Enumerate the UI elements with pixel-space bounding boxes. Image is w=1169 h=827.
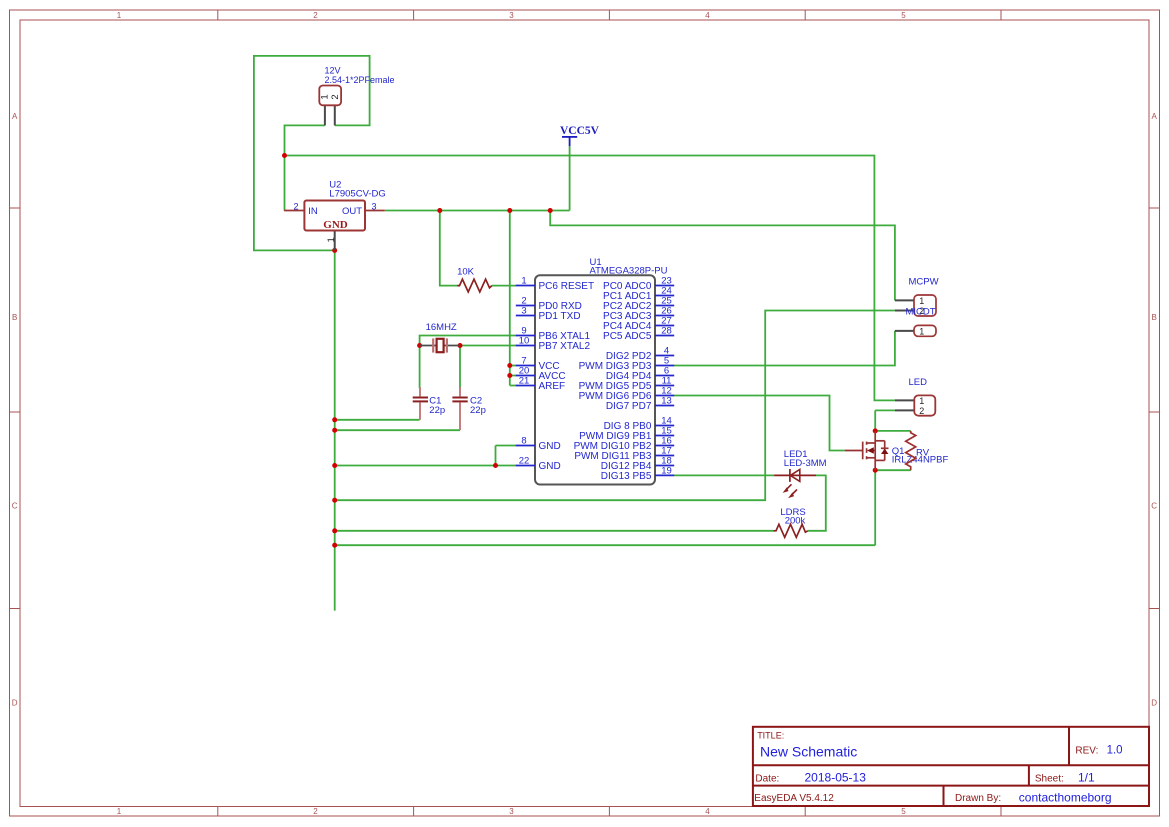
wire 12V pin2 loop to GND node [254,56,370,251]
svg-text:C: C [1151,502,1157,511]
U1 pin 13 DIG7 PD7 [606,396,674,412]
wire C1 bottom to GND bus [335,419,420,421]
U1 pin 9 PB6 XTAL1 [516,326,591,342]
wire pin8 GND drop [495,446,497,466]
wire VCC5V to VCC/AVCC/AREF [509,211,511,386]
U1 pin 10 PB7 XTAL2 [516,336,591,352]
wire Q1 drain to RV top [875,430,911,432]
junction node (419.6,345.5) [417,343,422,348]
svg-text:13: 13 [661,396,672,407]
U1 pin 21 AREF [516,376,565,392]
svg-text:4: 4 [705,11,710,20]
wire 12V pin1 to U2 IN [285,125,325,210]
junction node (509.8,365.5) [507,363,512,368]
svg-text:1: 1 [919,296,924,306]
resistor LDRS 200k [774,507,808,537]
capacitor C1 22p [413,387,445,420]
svg-text:Date:: Date: [755,773,779,784]
wire XTAL1 to U1 pin9 [420,336,516,346]
wire U2 OUT rail VCC5V [385,210,570,212]
svg-text:EasyEDA V5.4.12: EasyEDA V5.4.12 [754,793,834,804]
svg-text:22p: 22p [470,405,486,416]
svg-text:2: 2 [313,11,318,20]
LED1 LED-3MM [774,449,827,498]
svg-text:19: 19 [661,466,672,477]
junction node (334.7,430.2) [332,428,337,433]
Q1 labels [892,446,949,466]
U1 pin 6 DIG4 PD4 [606,366,674,382]
wire U1 pin19 PB5 to LED1 [674,474,774,476]
svg-text:10: 10 [519,336,530,347]
wire Q1 source to GND bus [335,544,876,546]
svg-text:VCC5V: VCC5V [560,125,600,137]
svg-text:10K: 10K [457,267,475,278]
junction node (439.8,210.5) [437,208,442,213]
junction node (334.7,419.8) [332,417,337,422]
U1 pin 11 PWM DIG5 PD5 [579,376,675,392]
wire LDRS to GND bus [335,530,774,532]
wire LED1 cathode to LDRS [808,475,826,530]
title block [753,727,1149,806]
wire stub to pin21 AREF [510,385,516,387]
svg-text:GND: GND [539,441,561,452]
svg-text:C: C [12,502,18,511]
wire U1 pin8 GND stub [496,445,517,447]
U1 pin 26 PC3 ADC3 [603,306,674,322]
svg-text:LED-3MM: LED-3MM [784,458,827,469]
svg-text:4: 4 [705,807,710,816]
svg-text:1: 1 [326,237,337,242]
svg-text:2: 2 [919,406,924,416]
U1 pin 3 PD1 TXD [516,306,581,322]
svg-text:IN: IN [308,206,318,217]
svg-text:2018-05-13: 2018-05-13 [805,771,867,785]
svg-text:A: A [12,112,18,121]
junction node (334.7,545.2) [332,543,337,548]
junction node (334.7,250.4) [332,248,337,253]
wire LED pin2 wire [875,409,895,411]
junction node (334.7,530.8) [332,528,337,533]
U1 pin 18 DIG12 PB4 [601,456,674,472]
svg-text:GND: GND [323,219,348,231]
junction node (495.5,465.5) [493,463,498,468]
wire C2 bottom to GND bus [335,429,460,431]
crystal 16MHZ [420,322,460,353]
wire Q1 source down [874,470,876,545]
connector MCPW [895,277,939,317]
U1 pin 14 DIG 8 PB0 [604,416,675,432]
junction node (334.7,500.2) [332,498,337,503]
regulator U2 L7905CV-DG [284,180,386,251]
junction node (509.8,210.5) [507,208,512,213]
svg-text:MCPW: MCPW [909,277,939,288]
svg-text:2.54-1*2PFemale: 2.54-1*2PFemale [325,75,395,85]
svg-text:2: 2 [330,94,341,99]
wire GND bus to U1 pin22 [335,465,516,467]
svg-text:PD1 TXD: PD1 TXD [539,311,581,322]
U1 pin 7 VCC [516,356,560,372]
title block text [754,731,1122,805]
resistor RV [906,431,930,470]
wire XTAL1 down to C1 [419,346,421,389]
U1 pin 23 PC0 ADC0 [603,276,674,292]
wire XTAL2 down to C2 [459,346,461,389]
U1 pin 19 DIG13 PB5 [601,466,674,482]
svg-text:DIG7 PD7: DIG7 PD7 [606,401,652,412]
IC U1 ATMEGA328P-PU [535,257,668,485]
wire LED pin2 to Q1 drain [874,410,876,431]
svg-text:D: D [12,699,18,708]
junction node (334.7,465.5) [332,463,337,468]
U1 pin 27 PC4 ADC4 [603,316,674,332]
svg-text:REV:: REV: [1075,746,1098,757]
svg-text:PB7 XTAL2: PB7 XTAL2 [539,341,591,352]
U1 pin 28 PC5 ADC5 [603,326,674,342]
svg-text:3: 3 [509,11,514,20]
svg-text:1: 1 [117,11,122,20]
wire U1 pin12 PD6 to Q1 gate [674,396,845,451]
svg-text:MICDT: MICDT [906,307,936,318]
svg-text:5: 5 [901,11,906,20]
wire MCPW pin2 to GND bus [335,311,895,501]
wire U1 pin5 PD3 to MICDT [674,331,895,366]
U1 pin 15 PWM DIG9 PB1 [579,426,674,442]
svg-text:Sheet:: Sheet: [1035,773,1064,784]
junction node (460,345.5) [458,343,463,348]
junction node (509.8,375.5) [507,373,512,378]
svg-text:OUT: OUT [342,206,362,217]
U1 pin 1 PC6 RESET [516,276,594,292]
junction node (550.2,210.5) [548,208,553,213]
wire stub to pin20 AVCC [510,375,516,377]
resistor 10K [457,267,492,293]
svg-text:1: 1 [117,807,122,816]
svg-text:1.0: 1.0 [1107,745,1123,757]
svg-text:3: 3 [372,202,377,212]
svg-text:1/1: 1/1 [1078,771,1095,785]
U1 pin 24 PC1 ADC1 [603,286,674,302]
svg-text:3: 3 [521,306,526,317]
U1 pin 20 AVCC [516,366,566,382]
svg-text:3: 3 [509,807,514,816]
capacitor C2 22p [452,387,485,430]
svg-text:Drawn By:: Drawn By: [955,793,1001,804]
connector LED [895,377,935,416]
svg-text:DIG13 PB5: DIG13 PB5 [601,471,652,482]
junction node (875.2,470.2) [873,468,878,473]
svg-text:TITLE:: TITLE: [757,731,784,741]
svg-text:8: 8 [521,436,526,447]
svg-text:New Schematic: New Schematic [760,744,857,760]
svg-text:D: D [1151,699,1157,708]
U1 pin 12 PWM DIG6 PD6 [579,386,675,402]
svg-text:L7905CV-DG: L7905CV-DG [329,188,386,199]
U1 pin 22 GND [516,456,561,472]
svg-text:AREF: AREF [539,381,566,392]
transistor Q1 IRLZ44NPBF [845,431,889,470]
U1 pin 8 GND [516,436,561,452]
wire 10K to U1 pin1 [492,285,516,287]
U1 pin 16 PWM DIG10 PB2 [574,436,675,452]
svg-text:1: 1 [919,326,924,336]
svg-text:1: 1 [521,276,526,287]
wire 12V rail to LED connector pin1 [285,156,895,401]
junction node (875.2,430.9) [873,428,878,433]
wire VCC5V to MCPW pin1 [550,211,895,301]
svg-text:1: 1 [919,396,924,406]
U1 pin 17 PWM DIG11 PB3 [574,446,674,462]
svg-text:5: 5 [901,807,906,816]
wire GND main vertical bus [334,250,336,610]
svg-text:21: 21 [519,376,530,387]
wire XTAL2 to U1 pin10 [460,345,516,347]
svg-text:28: 28 [661,326,672,337]
svg-text:2: 2 [294,202,299,212]
svg-text:B: B [1152,313,1157,322]
junction node (284.5,155.5) [282,153,287,158]
U1 pin 2 PD0 RXD [516,296,582,312]
connector 12V 2.54-1*2PFemale [319,66,394,126]
wire stub to pin7 VCC [510,365,516,367]
U1 pin 5 PWM DIG3 PD3 [579,356,675,372]
svg-text:GND: GND [539,461,561,472]
wire Q1 source to RV bottom [875,469,911,471]
svg-text:RV: RV [916,448,930,459]
svg-text:22: 22 [519,456,530,467]
U1 pin 25 PC2 ADC2 [603,296,674,312]
net flag VCC5V [560,125,600,146]
svg-text:22p: 22p [429,405,445,416]
connector MICDT [895,307,936,337]
svg-text:B: B [12,313,17,322]
svg-text:PC6 RESET: PC6 RESET [539,281,595,292]
svg-text:LED: LED [909,377,928,388]
wire VCC5V flag drop [569,146,571,210]
wire VCC5V to R 10K [440,211,457,286]
svg-text:16MHZ: 16MHZ [426,322,457,333]
svg-text:PC5 ADC5: PC5 ADC5 [603,331,652,342]
svg-text:2: 2 [313,807,318,816]
U1 pin 4 DIG2 PD2 [606,346,674,362]
svg-text:contacthomeborg: contacthomeborg [1019,791,1112,805]
svg-text:A: A [1152,112,1158,121]
